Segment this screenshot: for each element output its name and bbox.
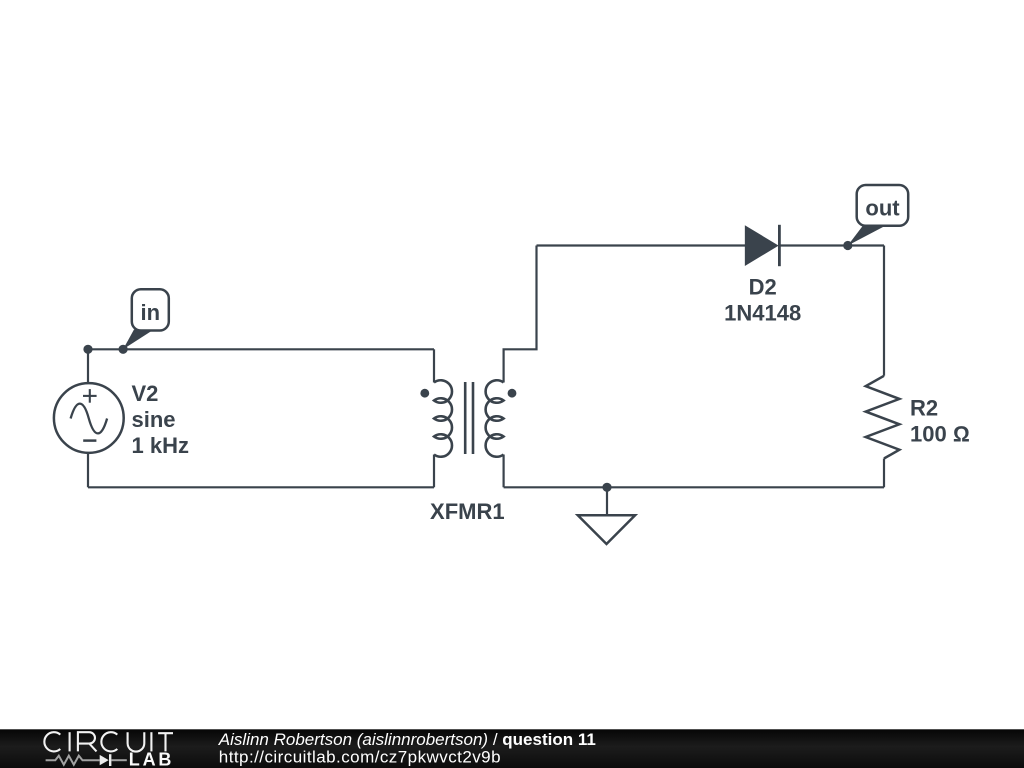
wire top-left horizontal (in node to transformer) — [88, 348, 434, 350]
transformer secondary polarity dot — [508, 389, 517, 398]
wire secondary top lead with step — [504, 246, 537, 383]
svg-text:LAB: LAB — [129, 750, 174, 768]
label R2 — [910, 396, 970, 447]
svg-text:R2: R2 — [910, 396, 938, 421]
wire top rail to diode — [537, 244, 747, 246]
voltage source V2 circle — [54, 383, 124, 453]
wire bottom-left horizontal — [88, 486, 434, 488]
junction dot at ground — [602, 483, 611, 492]
label D2 — [724, 275, 801, 326]
transformer primary polarity dot — [420, 389, 429, 398]
ground stem — [606, 487, 608, 515]
node label "in" box — [132, 289, 169, 330]
node label "out" box — [857, 185, 909, 226]
ground triangle — [578, 515, 635, 544]
wire left vertical bottom (V2 - to bottom rail) — [87, 453, 89, 488]
junction dot at in wire — [83, 345, 92, 354]
svg-text:1 kHz: 1 kHz — [132, 433, 189, 458]
V2 minus sign — [83, 439, 96, 442]
CircuitLab logo CIRCUIT (stroke letters) — [44, 732, 173, 751]
CircuitLab logo schematic glyph — [46, 756, 100, 765]
resistor R2 zigzag — [866, 376, 900, 459]
wire bottom rail — [504, 486, 884, 488]
label V2 value text — [132, 381, 189, 458]
svg-text:out: out — [865, 196, 900, 221]
wire resistor bottom lead — [883, 459, 885, 488]
V2 sine wave — [71, 404, 108, 434]
transformer XFMR1 secondary winding — [486, 380, 504, 456]
node label "in" callout wedge — [123, 330, 151, 350]
wire primary bottom lead — [433, 455, 435, 488]
junction dot in callout anchor — [119, 345, 128, 354]
node label "out" callout wedge — [848, 226, 883, 246]
svg-text:http://circuitlab.com/cz7pkwvc: http://circuitlab.com/cz7pkwvct2v9b — [219, 748, 501, 767]
svg-text:XFMR1: XFMR1 — [430, 499, 505, 524]
wire diode to right corner — [779, 244, 884, 246]
diode D2 cathode bar — [778, 225, 781, 266]
svg-text:1N4148: 1N4148 — [724, 301, 801, 326]
svg-text:Aislinn Robertson (aislinnrobe: Aislinn Robertson (aislinnrobertson) / q… — [218, 730, 596, 749]
svg-text:V2: V2 — [132, 381, 159, 406]
wire primary top lead — [433, 349, 435, 382]
svg-text:in: in — [141, 300, 161, 325]
svg-text:D2: D2 — [749, 275, 777, 300]
svg-text:100 Ω: 100 Ω — [910, 422, 970, 447]
wire secondary bottom lead — [503, 455, 505, 488]
junction dot at out — [843, 241, 852, 250]
V2 plus sign — [83, 389, 97, 403]
svg-text:sine: sine — [132, 407, 176, 432]
diode D2 triangle — [746, 227, 778, 265]
transformer core lines — [465, 382, 473, 454]
transformer XFMR1 primary winding — [434, 380, 452, 456]
wire left vertical top (to V2 +) — [87, 349, 89, 383]
wire right vertical to resistor — [883, 246, 885, 376]
